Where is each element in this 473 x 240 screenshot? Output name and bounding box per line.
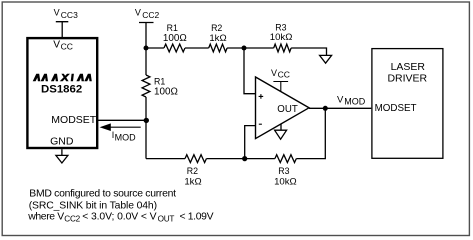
svg-text:MOD: MOD bbox=[344, 97, 365, 107]
svg-text:10kΩ: 10kΩ bbox=[270, 32, 293, 43]
svg-text:V: V bbox=[337, 94, 344, 105]
svg-text:R3: R3 bbox=[278, 166, 289, 176]
ground (op-amp) bbox=[275, 124, 287, 139]
wire - input bbox=[245, 126, 256, 159]
current arrow IMOD bbox=[110, 126, 141, 128]
wire top rail bbox=[146, 48, 327, 55]
wire MODSET pin bbox=[98, 119, 146, 121]
svg-text:100Ω: 100Ω bbox=[163, 33, 187, 44]
resistor R3 (top) bbox=[274, 44, 291, 52]
svg-text:MOD: MOD bbox=[115, 133, 136, 143]
svg-text:10kΩ: 10kΩ bbox=[274, 176, 297, 187]
svg-text:V: V bbox=[135, 8, 141, 18]
svg-text:OUT: OUT bbox=[158, 215, 175, 224]
svg-text:R2: R2 bbox=[187, 166, 198, 176]
op-amp U2 bbox=[256, 77, 310, 139]
resistor R1 (vertical 100 ohm) bbox=[142, 75, 150, 97]
svg-text:R1: R1 bbox=[154, 76, 165, 86]
svg-text:MODSET: MODSET bbox=[375, 103, 417, 114]
svg-text:< 1.09V: < 1.09V bbox=[180, 211, 214, 222]
svg-text:where V: where V bbox=[27, 211, 64, 222]
svg-text:1kΩ: 1kΩ bbox=[184, 176, 201, 187]
resistor R2 (top) bbox=[209, 44, 227, 52]
svg-text:MODSET: MODSET bbox=[51, 114, 97, 126]
op-amp - pin bbox=[259, 123, 262, 125]
svg-text:1kΩ: 1kΩ bbox=[209, 33, 226, 44]
resistor R1 (top) bbox=[164, 44, 185, 52]
op-amp + pin bbox=[259, 94, 264, 99]
svg-text:V: V bbox=[271, 68, 277, 78]
ground (top right) bbox=[320, 55, 332, 63]
resistor R2 (bottom) bbox=[185, 155, 206, 163]
svg-text:100Ω: 100Ω bbox=[154, 86, 178, 97]
svg-text:GND: GND bbox=[50, 135, 74, 147]
wire output bbox=[309, 107, 371, 109]
node B (+ input tap) bbox=[242, 46, 247, 51]
svg-text:(SRC_SINK bit in Table 04h): (SRC_SINK bit in Table 04h) bbox=[29, 200, 157, 211]
MAXIM logo bbox=[33, 74, 92, 82]
svg-text:< 3.0V; 0.0V < V: < 3.0V; 0.0V < V bbox=[82, 211, 156, 222]
svg-text:V: V bbox=[54, 8, 60, 18]
laser driver box bbox=[372, 49, 443, 159]
node E (VMOD output node) bbox=[323, 106, 328, 111]
svg-text:CC3: CC3 bbox=[61, 10, 78, 20]
svg-text:DS1862: DS1862 bbox=[41, 84, 82, 96]
svg-text:R1: R1 bbox=[167, 23, 178, 33]
svg-text:R2: R2 bbox=[211, 23, 222, 33]
svg-text:CC: CC bbox=[278, 70, 290, 80]
svg-text:V: V bbox=[53, 40, 60, 51]
svg-text:BMD configured to source curre: BMD configured to source current bbox=[29, 189, 176, 200]
wire left branch bbox=[145, 48, 147, 159]
wire + input bbox=[244, 48, 256, 94]
ground (below DS1862) bbox=[56, 149, 68, 163]
IC U1 DS1862 box bbox=[27, 38, 97, 148]
svg-text:CC: CC bbox=[61, 42, 73, 52]
resistor R3 (bottom feedback) bbox=[275, 155, 296, 163]
svg-text:OUT: OUT bbox=[277, 104, 298, 115]
wire bottom rail bbox=[146, 108, 325, 158]
node D (inverting tap) bbox=[242, 156, 247, 161]
node A (VCC2 / top rail) bbox=[144, 46, 149, 51]
svg-text:CC2: CC2 bbox=[64, 215, 80, 224]
svg-text:DRIVER: DRIVER bbox=[387, 72, 427, 84]
svg-text:LASER: LASER bbox=[391, 61, 426, 73]
svg-text:CC2: CC2 bbox=[142, 10, 159, 20]
node C (MODSET junction) bbox=[144, 118, 149, 123]
